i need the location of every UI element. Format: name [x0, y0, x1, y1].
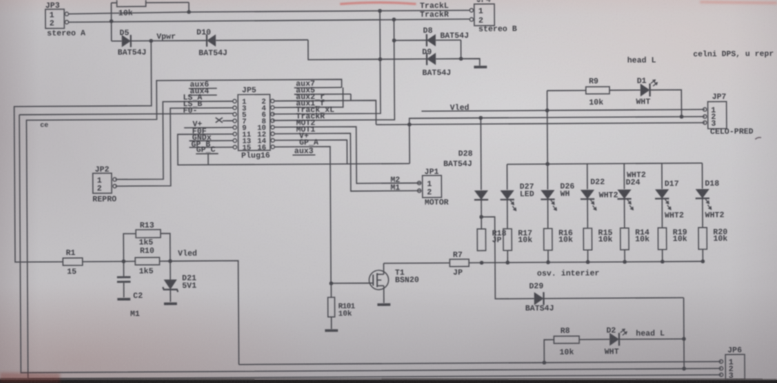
wire D10 jog to D9 line	[308, 39, 380, 59]
label CELO-PRED	[710, 128, 753, 137]
wire D1 to line2	[650, 90, 684, 119]
resistor R18 JP	[477, 229, 506, 251]
dark bottom band (photo edge)	[0, 379, 777, 383]
resistor R4 10k top	[111, 0, 189, 21]
label TrackR pin	[296, 112, 325, 121]
connector JP7	[703, 93, 727, 129]
junction R10/D21	[124, 259, 173, 263]
stub GP_C	[196, 146, 219, 165]
junction Vled drop	[545, 109, 549, 113]
label TrackL	[420, 2, 449, 11]
wire V+ left	[184, 120, 233, 129]
stub aux6	[189, 80, 217, 89]
bus top of LEDs	[507, 161, 702, 166]
wire LS_B	[115, 100, 233, 186]
wire GP_B	[189, 140, 233, 149]
wire D8-D9 join	[459, 40, 480, 66]
wire F0- to bottom	[19, 110, 721, 372]
wire TrackL	[69, 10, 470, 14]
label head L top	[627, 56, 656, 65]
wire Vpwr routing	[14, 41, 153, 262]
stub aux7	[294, 80, 342, 89]
diode D10 BAT54J	[151, 28, 308, 59]
diode D28 BAT54J	[443, 116, 488, 200]
wire aux7 long	[26, 79, 343, 379]
label Vled left	[178, 250, 197, 259]
labels M2 M1	[390, 176, 400, 193]
resistor R17 10k	[503, 229, 532, 251]
wire V+ net line2	[409, 117, 705, 164]
paper grain	[0, 0, 1, 1]
vertical TrackR to JP5	[272, 20, 394, 121]
wire F0-	[19, 106, 233, 116]
wire gate	[329, 281, 369, 285]
junction TrackR vert	[392, 18, 396, 22]
label MOTOR	[425, 198, 449, 207]
note celni DPS	[693, 50, 774, 59]
wire R8 from Vled	[542, 340, 554, 365]
wire T1 source	[383, 290, 385, 303]
stub aux4	[189, 87, 217, 96]
resistor R16 10k	[544, 228, 573, 250]
wire D29 down	[682, 298, 686, 371]
wire V+ right	[274, 132, 347, 165]
junction D8	[392, 39, 396, 43]
node Vpwr	[149, 33, 176, 43]
wire aux1_f	[274, 87, 343, 108]
ground D21	[164, 302, 177, 305]
stub aux5	[294, 86, 351, 101]
label TrackR	[420, 11, 449, 20]
junction TrackL vert	[378, 9, 382, 13]
led D1 WHT	[636, 77, 660, 107]
resistor R9 10k	[547, 77, 640, 108]
led D17 WHT2	[655, 163, 684, 263]
wire MOT1	[274, 125, 420, 192]
zener D21 5V1	[163, 261, 197, 302]
label stereo A	[47, 29, 86, 38]
wire GP_A	[274, 138, 330, 283]
connector JP3	[45, 2, 68, 29]
wire jumper bypass	[481, 217, 495, 263]
connector JP1 MOTOR	[417, 168, 441, 198]
wire Vled to bottom	[170, 261, 239, 365]
led D2 WHT	[604, 326, 684, 357]
led D24 WHT2	[617, 163, 646, 263]
transistor T1 BSN20	[369, 269, 419, 290]
resistor R13 1k5	[123, 221, 170, 261]
junction D9	[378, 57, 382, 61]
resistor R20 10k	[698, 227, 727, 249]
wire T1 drain	[383, 263, 385, 270]
wire bottom line3	[28, 375, 721, 379]
resistor R10 1k5	[135, 247, 159, 277]
ground C2	[117, 298, 130, 301]
label head L bottom	[636, 330, 665, 339]
wire aux2_r	[274, 93, 376, 126]
diode D8 BAT54J	[394, 27, 469, 47]
ground for D8 D9	[474, 66, 487, 69]
stub aux3	[293, 147, 316, 156]
junction line2/line3	[407, 123, 411, 127]
led D27 LED	[500, 164, 535, 264]
wire Vled line	[421, 102, 704, 113]
wire D28 to R18	[479, 199, 483, 229]
capacitor C2	[117, 261, 143, 301]
junction R1/C2	[122, 260, 126, 264]
junction on TrackL	[187, 10, 191, 14]
wire to D5	[111, 21, 121, 41]
diode D29 BATS4J	[495, 261, 684, 313]
IC JP5 Plug16	[233, 86, 275, 161]
resistor R101 10k	[328, 283, 356, 329]
wire MOT2	[274, 118, 420, 184]
resistor R1 15	[63, 249, 124, 277]
led D22 WHT2	[580, 164, 618, 264]
label M1	[130, 310, 140, 319]
ground T1	[377, 303, 390, 306]
connector JP4	[470, 0, 495, 26]
wire GNDx	[189, 134, 233, 143]
ground R101	[325, 329, 338, 332]
bus bottom of LEDs	[482, 261, 703, 262]
stray mark	[755, 137, 761, 139]
wire TrackR	[69, 19, 470, 22]
resistor R14 10k	[620, 228, 649, 250]
label Track_xL	[296, 106, 335, 115]
wire bottom Vled	[239, 362, 721, 365]
diode D9 BAT54J	[380, 48, 461, 78]
resistor R15 10k	[583, 228, 612, 250]
junction on TrackR	[109, 19, 113, 23]
wire line3 to JP7	[376, 123, 705, 125]
led D26 WH	[541, 164, 576, 264]
resistor R8 10k	[554, 327, 610, 358]
wire F0F loop	[178, 126, 410, 165]
wire Vled drop to bus	[546, 91, 548, 164]
vertical TrackL to JP5	[272, 11, 380, 114]
label REPRO	[93, 195, 117, 204]
label osv. interier	[537, 269, 600, 278]
led D18 WHT2	[695, 163, 724, 263]
resistor R7 JP	[384, 251, 484, 278]
diode D5 BAT54J	[118, 29, 152, 58]
no-connect X pin7	[216, 118, 233, 123]
resistor R19 10k	[658, 228, 687, 250]
connector JP6	[719, 346, 745, 381]
label stereo B	[478, 25, 517, 34]
wire LS_A	[115, 93, 233, 179]
connector JP2	[93, 166, 117, 194]
label ce	[40, 122, 48, 130]
